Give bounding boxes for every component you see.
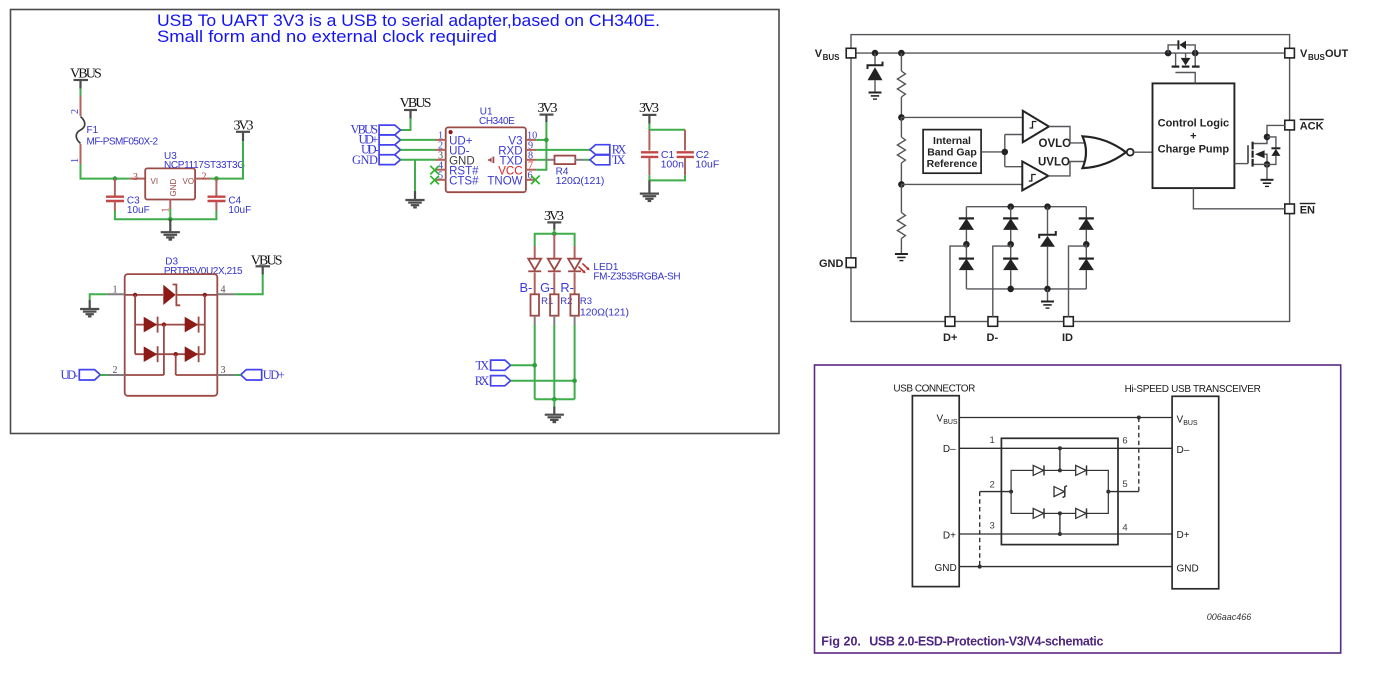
power symbol 3V3 (above U1 right): [538, 101, 558, 122]
port flag UD+ (U1 left): [359, 133, 436, 147]
LED1 FM-Z3535RGBA-SH (three LEDs): [528, 234, 680, 283]
svg-text:R-: R-: [560, 280, 574, 295]
wire pin2 horizontal: [980, 491, 1011, 493]
power symbol VBUS (above D3 pin4): [251, 253, 283, 274]
svg-text:10uF: 10uF: [127, 205, 150, 216]
node dot pin5/loop: [1106, 490, 1110, 494]
ESD protector D3 PRTR5V0U2X,215: [107, 257, 243, 396]
pin GND: [819, 258, 856, 270]
node junction V3: [544, 138, 549, 143]
wire VBUS to F1: [80, 89, 82, 96]
diode bottom-left: [1033, 508, 1044, 518]
node dot pin2/loop: [1009, 490, 1013, 494]
wire 3V3 to V3/VCC: [536, 122, 546, 170]
zener diode at VBUS: [868, 53, 883, 99]
svg-text:D+: D+: [1177, 530, 1190, 541]
resistor R3 120R: [570, 273, 629, 326]
wire U3 VO to 3V3: [211, 141, 244, 179]
svg-text:VBUS: VBUS: [400, 96, 432, 111]
svg-text:Charge Pump: Charge Pump: [1158, 143, 1230, 155]
wire R4 to TX port: [585, 159, 590, 161]
node dot divider mid2: [898, 181, 905, 188]
capacitor C3 10uF: [106, 179, 150, 216]
svg-text:1: 1: [990, 435, 995, 446]
power symbol 3V3 (above U3 right): [234, 119, 254, 142]
wire GND row: [959, 566, 1172, 568]
node junction RX/R: [572, 378, 577, 383]
no-connect X pin5: [430, 176, 439, 185]
diode column ID lower: [1079, 244, 1094, 289]
pin EN: [1285, 204, 1316, 217]
svg-text:USB 2.0-ESD-Protection-V3/V4-s: USB 2.0-ESD-Protection-V3/V4-schematic: [869, 635, 1103, 649]
IC U1 CH340E: [436, 106, 538, 192]
svg-text:3: 3: [133, 172, 138, 183]
svg-text:Control Logic: Control Logic: [1158, 117, 1230, 129]
svg-text:R1: R1: [541, 296, 553, 307]
node junction C3 top: [113, 176, 118, 181]
wire node to OVLO input: [901, 116, 1022, 118]
pin D+: [943, 317, 957, 344]
no-connect X pin4: [430, 166, 439, 175]
wire R3 down: [574, 325, 576, 399]
svg-text:V: V: [815, 48, 823, 60]
svg-text:10uF: 10uF: [228, 205, 251, 216]
svg-text:2: 2: [990, 480, 995, 491]
svg-text:2: 2: [70, 109, 81, 114]
wire D3 pin4 to VBUS: [235, 275, 263, 295]
svg-text:4: 4: [1122, 523, 1127, 534]
wire bottom rail C3-C4: [115, 211, 216, 220]
port flag GND (U1 left): [352, 153, 436, 167]
svg-text:5: 5: [1122, 479, 1127, 490]
ESD chip box: [1001, 438, 1118, 544]
svg-text:BUS: BUS: [1308, 53, 1326, 62]
wire LED top rail: [535, 234, 575, 246]
sheet border frame: [11, 10, 780, 434]
svg-text:USB CONNECTOR: USB CONNECTOR: [893, 383, 975, 394]
svg-text:D+: D+: [943, 530, 956, 541]
output FET near ACK: [1234, 125, 1284, 186]
svg-text:1: 1: [70, 158, 81, 163]
outer IC boundary box: [851, 35, 1290, 322]
svg-text:FM-Z3535RGBA-SH: FM-Z3535RGBA-SH: [593, 272, 680, 283]
svg-text:Hi-SPEED USB TRANSCEIVER: Hi-SPEED USB TRANSCEIVER: [1125, 384, 1261, 395]
node dot D-/center: [1058, 446, 1062, 450]
comparator OVLO: [1023, 111, 1071, 150]
control logic + charge pump box: [1153, 83, 1235, 188]
svg-text:1: 1: [113, 285, 118, 296]
svg-text:4: 4: [221, 285, 226, 296]
svg-text:3: 3: [221, 365, 226, 376]
wire ID pin to array: [1069, 246, 1087, 317]
wire C1/C2 bottom rail: [649, 175, 685, 180]
ground below C1: [640, 180, 659, 201]
svg-text:TX: TX: [476, 358, 490, 372]
svg-text:2: 2: [113, 365, 118, 376]
resistor divider middle: [897, 117, 905, 184]
wire bandgap to comparators: [981, 151, 1005, 153]
diode bottom-right: [1076, 508, 1087, 518]
power symbol VBUS (above U1 flags): [400, 96, 432, 119]
capacitor C1 100n: [641, 130, 684, 175]
svg-text:100n: 100n: [661, 159, 685, 171]
port UD+ (right of D3): [235, 368, 285, 382]
resistor divider bottom: [895, 184, 908, 260]
wire F1 to U3 row: [81, 164, 130, 179]
svg-text:EN: EN: [1300, 205, 1315, 217]
regulator U3 NCP1117ST33T3G: [130, 151, 246, 213]
svg-text:D+: D+: [943, 332, 957, 344]
node dot divider top: [898, 50, 905, 57]
wire D- pin to array: [993, 246, 1011, 317]
svg-text:GND: GND: [819, 258, 844, 270]
pin ID: [1062, 317, 1073, 344]
wire OVLO out to NOR: [1049, 127, 1085, 143]
wire LED bottom rail: [535, 398, 575, 400]
wire D3 pin1 to ground: [90, 294, 107, 300]
dashed wire pin2 to GND: [979, 492, 981, 567]
inner diode bridge loop: [1011, 470, 1108, 513]
node dot loop bottom: [1058, 511, 1062, 515]
svg-text:TNOW: TNOW: [487, 175, 522, 187]
ground below U3: [161, 219, 180, 239]
svg-text:OUT: OUT: [1325, 48, 1349, 60]
svg-text:NCP1117ST33T3G: NCP1117ST33T3G: [164, 160, 245, 171]
node junction rail center: [168, 217, 173, 222]
comparator UVLO: [1022, 156, 1070, 190]
wire U3 GND pin to rail: [169, 209, 171, 219]
zener column center: [1039, 207, 1056, 289]
svg-text:006aac466: 006aac466: [1207, 612, 1252, 622]
ground below LED rail: [545, 407, 564, 423]
center zener diode: [1054, 486, 1067, 498]
wire D+ pin to array: [950, 246, 966, 317]
port flag VBUS (U1 left): [351, 123, 401, 137]
wire VBUS row: [959, 417, 1172, 419]
svg-text:GND: GND: [169, 179, 178, 197]
diode column D- lower: [1003, 244, 1018, 289]
svg-text:Small form and no external clo: Small form and no external clock require…: [157, 27, 497, 46]
node dot VBUS/zener: [872, 50, 879, 57]
wire V3 pin to 3V3 vertical: [536, 139, 546, 141]
node dots on top rail: [1007, 203, 1014, 210]
svg-text:D-: D-: [987, 332, 999, 344]
port flag UD- (U1 left): [361, 143, 436, 157]
pin VBUS: [815, 48, 856, 62]
svg-text:BUS: BUS: [1183, 420, 1198, 427]
wire NOR to control box: [1134, 151, 1153, 153]
resistor R1: [531, 273, 554, 326]
svg-text:VO: VO: [183, 177, 195, 186]
svg-text:D–: D–: [943, 444, 956, 455]
power symbol 3V3 (above LEDs): [544, 209, 564, 230]
port UD- (left of D3): [61, 368, 107, 382]
svg-text:GND: GND: [352, 153, 378, 167]
svg-text:Fig 20.: Fig 20.: [821, 635, 861, 649]
svg-text:GND: GND: [1177, 563, 1199, 574]
wire EN to control box: [1193, 188, 1284, 209]
resistor R2: [550, 273, 572, 326]
svg-text:D–: D–: [1177, 445, 1190, 456]
wire VBUS power to VBUS flag: [401, 119, 411, 131]
svg-text:6: 6: [1122, 436, 1127, 447]
node dot bandgap: [1002, 149, 1009, 156]
wire 3V3 to C1/C2 top rail: [649, 124, 685, 130]
wire rail to ground: [553, 399, 555, 406]
svg-text:+: +: [1190, 130, 1196, 142]
wire VBUS rail: [851, 52, 1290, 54]
svg-text:ID: ID: [1062, 332, 1073, 344]
svg-text:2: 2: [202, 172, 207, 183]
wire center vertical bottom: [1059, 513, 1061, 534]
svg-text:CTS#: CTS#: [449, 175, 479, 187]
purple figure frame: [815, 365, 1341, 653]
svg-text:MF-PSMF050X-2: MF-PSMF050X-2: [87, 137, 159, 148]
no-connect X pin6: [531, 176, 540, 185]
pin VBUSOUT: [1285, 48, 1349, 62]
node dot divider mid1: [898, 114, 905, 121]
svg-text:GND: GND: [935, 563, 957, 574]
port TX (LED side): [476, 358, 535, 372]
power symbol 3V3 (above C1/C2): [639, 101, 659, 123]
diode column ID upper: [1079, 207, 1094, 248]
wire node to UVLO input: [901, 183, 1022, 185]
svg-text:UD+: UD+: [263, 368, 285, 382]
pass FET on VBUS rail: [1165, 40, 1200, 83]
node junction TX/B: [532, 363, 537, 368]
svg-text:3: 3: [990, 520, 995, 531]
diode column D- upper: [1003, 207, 1018, 248]
wire GND flag to ground: [414, 160, 416, 191]
ESD diode array top rail: [966, 206, 1086, 208]
svg-text:BUS: BUS: [823, 53, 841, 62]
svg-text:UD-: UD-: [61, 368, 79, 382]
ground below U1 GND: [405, 191, 424, 207]
wire 3V3 to LED rail: [553, 230, 555, 234]
node dots on bottom rail: [1007, 286, 1014, 293]
wire pin5 horizontal: [1108, 491, 1139, 493]
wire D+ row: [959, 533, 1172, 535]
pin D-: [987, 317, 999, 344]
fuse F1 MF-PSMF050X-2: [70, 96, 158, 165]
port RX (LED side): [475, 374, 575, 388]
ground at D3 pin1: [80, 300, 99, 316]
svg-text:G-: G-: [540, 280, 554, 295]
svg-text:120Ω(121): 120Ω(121): [556, 175, 605, 187]
svg-text:CH340E: CH340E: [479, 116, 515, 127]
wire R1 down: [534, 325, 536, 399]
svg-text:ACK: ACK: [1300, 121, 1324, 133]
svg-text:120Ω(121): 120Ω(121): [580, 306, 629, 318]
wire TXD to R4: [536, 159, 546, 161]
dashed wire pin5 to VBUS: [1138, 418, 1140, 492]
USB transceiver box: [1172, 396, 1219, 589]
port RX (U1 right): [590, 143, 626, 157]
ground below zener column: [1041, 289, 1054, 308]
capacitor C4 10uF: [208, 179, 252, 216]
node dot VBUS/pin5: [1137, 416, 1141, 420]
resistor R4 120R: [546, 156, 605, 187]
node dot loop top: [1058, 468, 1062, 472]
resistor divider top: [897, 53, 905, 117]
node junction LED rail: [552, 232, 557, 237]
diode column D+ upper: [959, 207, 974, 248]
diode top-left: [1033, 465, 1044, 475]
svg-text:TX: TX: [612, 153, 626, 167]
power symbol VBUS (top left): [70, 67, 102, 89]
svg-text:Internal: Internal: [933, 135, 971, 147]
node junction C4 top: [214, 176, 219, 181]
svg-text:PRTR5V0U2X,215: PRTR5V0U2X,215: [164, 266, 243, 277]
ESD diode array bottom rail: [966, 288, 1086, 290]
NOR gate: [1083, 136, 1134, 168]
node junction bottom rail: [552, 397, 557, 402]
capacitor C2 10uF: [677, 130, 720, 175]
wire center vertical top: [1059, 448, 1061, 470]
node dot D+/center: [1058, 532, 1062, 536]
svg-text:B-: B-: [520, 280, 533, 295]
diode top-right: [1076, 465, 1087, 475]
wire D- row: [959, 447, 1172, 449]
svg-text:10uF: 10uF: [695, 159, 719, 171]
svg-text:Band Gap: Band Gap: [927, 146, 977, 158]
svg-text:UVLO: UVLO: [1038, 156, 1070, 168]
svg-text:BUS: BUS: [943, 419, 958, 426]
svg-text:F1: F1: [87, 125, 99, 136]
port TX (U1 right): [590, 153, 626, 167]
USB connector box: [912, 396, 959, 587]
wire UVLO out to NOR: [1048, 162, 1085, 176]
wire RXD to RX port: [536, 149, 590, 151]
svg-text:Reference: Reference: [927, 158, 978, 170]
svg-text:RX: RX: [475, 374, 490, 388]
svg-text:V: V: [1300, 48, 1308, 60]
pin ACK: [1285, 120, 1324, 133]
node dot GND/pin2: [978, 565, 982, 569]
wire R2 down: [553, 325, 555, 399]
internal band gap reference box: [923, 130, 981, 174]
diode column D+ lower: [959, 244, 974, 289]
svg-text:OVLO: OVLO: [1039, 138, 1072, 150]
svg-text:VI: VI: [151, 177, 159, 186]
